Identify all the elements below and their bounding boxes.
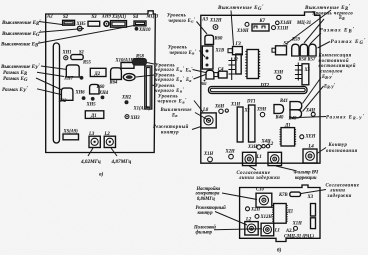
coil L8 can [201, 113, 216, 128]
crystal S2 [276, 46, 287, 55]
IC D1 (A3) [281, 128, 295, 146]
wire leader to bar X1 [152, 84, 154, 87]
wire leader [37, 89, 61, 95]
transistor (tombstone) near S1 [66, 65, 79, 77]
IC DT2 [247, 50, 259, 79]
pad XH9 [104, 21, 109, 26]
wire leader from L2 [276, 166, 295, 171]
transistor near D2 [111, 68, 122, 80]
pad X14H [276, 21, 280, 25]
wire leader [303, 86, 324, 112]
pad XH2 [125, 100, 129, 104]
wire leader [193, 70, 206, 73]
crystal Г3 [233, 47, 243, 55]
transistor R41 (top bump) [290, 102, 302, 110]
pad X2H bottom [229, 154, 234, 159]
pad X3H bottom [257, 145, 261, 149]
pad X6H right [300, 135, 304, 139]
connector X3(A1) [111, 21, 127, 28]
capacitor C4 [219, 71, 228, 78]
wire leader [298, 117, 326, 118]
wire leader down to Г3 [231, 11, 234, 46]
switch S3 [88, 21, 100, 26]
coil L2 can (A3) [268, 152, 282, 165]
resistor bar near C6 [236, 54, 241, 74]
trimmer bank R59/R58/R57 [292, 44, 299, 56]
wire leader to R60 of A3 [197, 22, 208, 35]
coil C10 can [256, 193, 272, 207]
wire leader to R58 [147, 63, 154, 65]
trimmer R7B [290, 192, 301, 196]
pad X1H (A2.1) [294, 226, 298, 230]
wire leader to S4 [38, 26, 134, 44]
wire leader [41, 66, 67, 70]
pad dot 2 [91, 97, 95, 101]
switch S1 [71, 55, 83, 60]
paper noise overlay [0, 0, 1, 1]
connector bar X1 (tall) [145, 66, 152, 109]
connector X1B [202, 46, 213, 69]
transistor R40 (left) [274, 105, 284, 114]
wire leader to L1 can [214, 229, 262, 230]
wire leader [36, 78, 62, 90]
BOARD A2 outline (left board) [46, 11, 156, 153]
pad XH3 [125, 115, 129, 119]
BOARD A3 outline (right board) [201, 12, 320, 163]
IC D1 (A2.1) [274, 204, 287, 224]
trimmer R59 (ellipse) [123, 74, 135, 81]
coil L2 can [104, 136, 115, 147]
coil L1 can (A3) [243, 152, 257, 165]
coil L2 can (A2.1) [245, 222, 258, 235]
resistor bar right [302, 64, 309, 85]
trimmer R58 body [133, 58, 147, 65]
junction dot [204, 80, 206, 82]
coil X5 ladder [295, 63, 302, 81]
wire leader to L8 can [192, 127, 201, 130]
trimmer R60 (A3) [205, 35, 214, 44]
IC D2 [90, 68, 106, 76]
transistor R61 [206, 70, 214, 79]
pad XH1 [64, 56, 68, 60]
connector X10 rect [121, 63, 134, 69]
wire leader to S2 [39, 22, 62, 25]
pad X9H [260, 112, 264, 116]
wire leader from L1 [249, 166, 256, 170]
pads X4H bottom [262, 145, 265, 148]
wire leader to XH5 [39, 29, 84, 33]
pad XH7 [80, 76, 84, 80]
wire leader to C10 [222, 193, 257, 200]
capacitor C6 stack [228, 58, 235, 81]
wire leader to X1B of A3 [200, 51, 206, 58]
pad X2H label (A2.1) [246, 207, 250, 211]
wire leader to R7B [301, 190, 326, 194]
wire leader to L2 can [215, 212, 247, 226]
wire leader to L8 [194, 101, 203, 113]
pad X4H [311, 112, 315, 116]
transistor R48 (bottom bump) [290, 110, 302, 118]
switch S4 [134, 21, 146, 26]
switch K7 [252, 24, 269, 31]
coil L1 can (A2.1) [261, 223, 274, 236]
resistor strip 2 [249, 105, 255, 142]
pad dot 1 [82, 96, 86, 100]
pad X6H [219, 109, 223, 113]
pad X12H [213, 25, 218, 30]
connector XS(A9) [63, 134, 79, 140]
wire leader [303, 78, 322, 104]
wire leader to R59 group [304, 19, 324, 43]
connector X3 slot 2 [311, 218, 316, 229]
bus bar (long horizontal) [209, 87, 308, 94]
pad X3H [277, 75, 281, 79]
transistor left R32 [61, 88, 73, 100]
wire leader to R59 ellipse [136, 75, 154, 77]
BOARD A2.1 outline (bottom board) [240, 185, 320, 242]
slot (long vertical hole) [53, 43, 59, 143]
pad XH10 [135, 27, 139, 31]
coil L4 can [303, 149, 317, 163]
wire leader down-left to S2 [286, 10, 331, 44]
wire to 4,02MHz [88, 148, 93, 156]
resistor strip 1 [237, 107, 243, 142]
pad X11H [272, 26, 276, 30]
wire leader to L4 [317, 148, 326, 154]
pad XH5 [77, 26, 82, 31]
wire leader [318, 42, 331, 49]
IC D1 [85, 111, 104, 119]
pad X12H label (A2.1) [255, 214, 259, 218]
coil L3 can [89, 136, 100, 147]
connector X3 slot 1 [311, 204, 316, 217]
pad X10H [245, 22, 249, 26]
transistor near R60 [90, 84, 99, 94]
switch S2 [63, 20, 75, 25]
wire leader [195, 113, 210, 122]
wire leader [194, 75, 206, 80]
wire leader [310, 33, 321, 44]
wire leader [37, 72, 64, 76]
pad X1H bottom [208, 157, 213, 162]
wire to 4,87MHz [111, 148, 117, 156]
pad dot 3 [101, 96, 105, 100]
